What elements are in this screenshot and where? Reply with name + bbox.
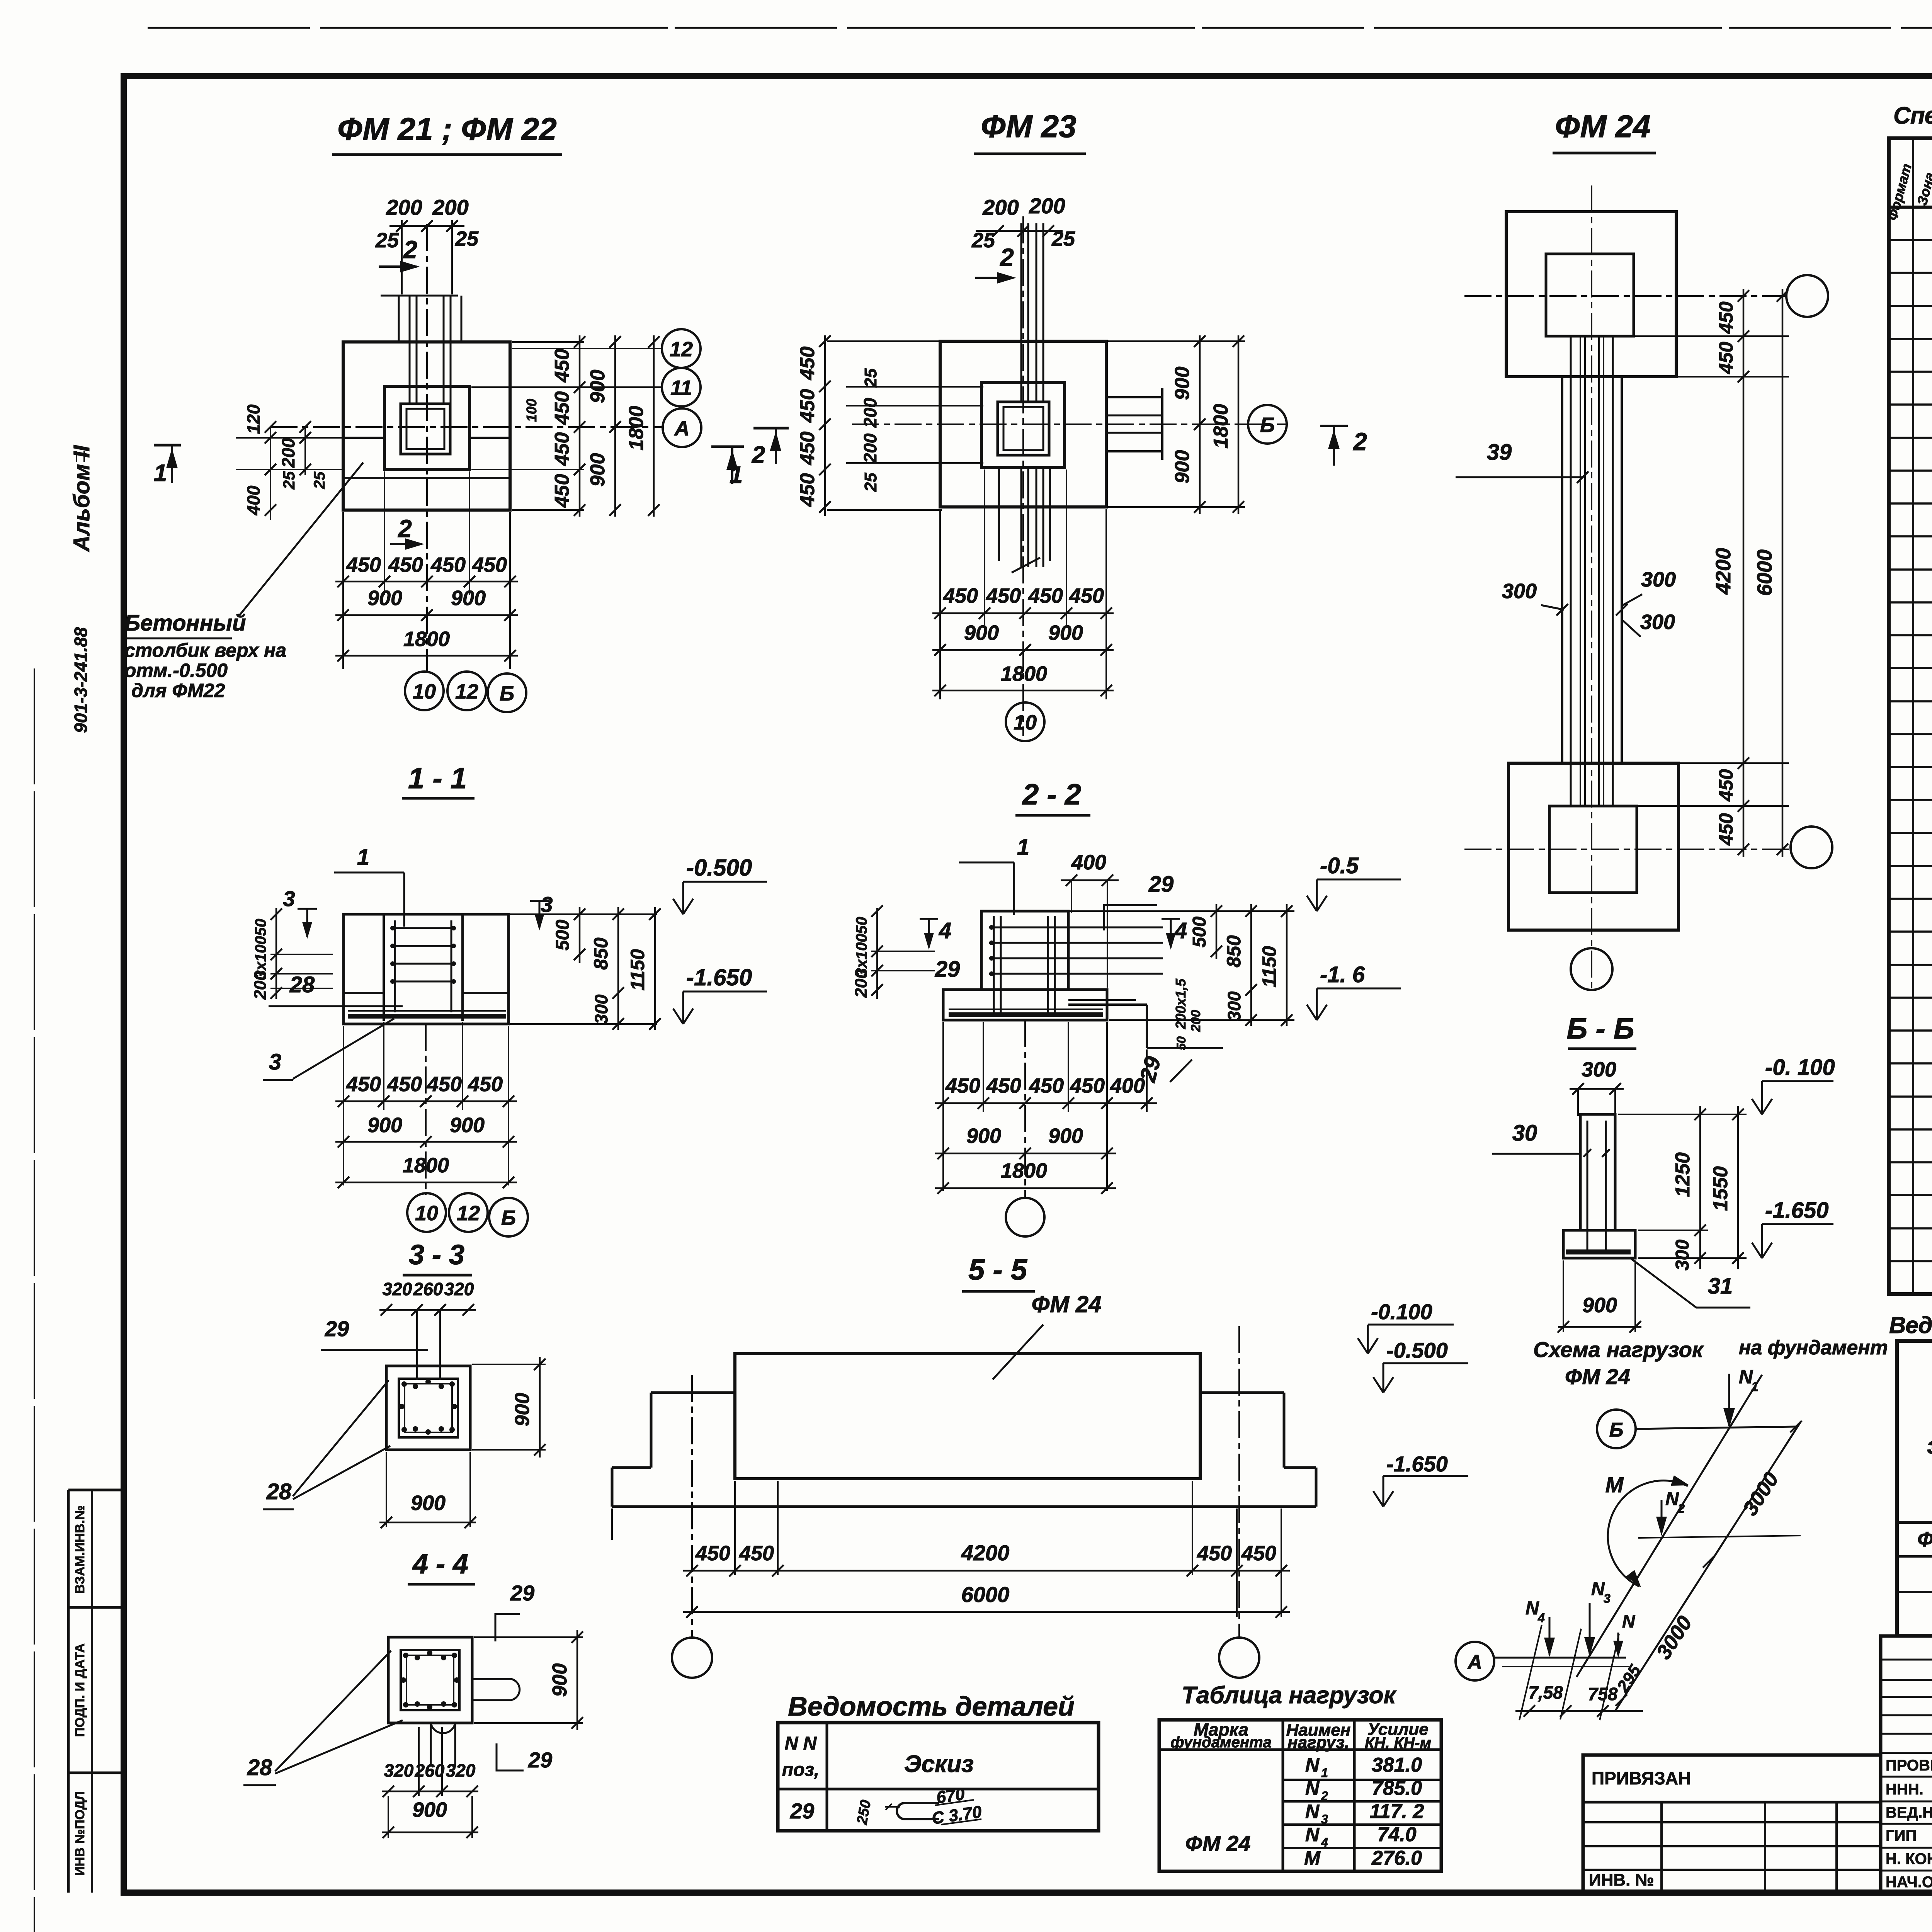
svg-text:450: 450 bbox=[430, 553, 466, 577]
5-5 base line bbox=[612, 1505, 1316, 1508]
1-1 bottom centerline bbox=[425, 1024, 427, 1195]
svg-text:450: 450 bbox=[1715, 342, 1737, 374]
svg-text:фундамента: фундамента bbox=[1170, 1734, 1272, 1751]
svg-text:276.0: 276.0 bbox=[1371, 1847, 1422, 1869]
svg-text:200: 200 bbox=[386, 195, 422, 219]
sheet outer left edge line bbox=[34, 668, 35, 1932]
svg-text:450: 450 bbox=[551, 432, 573, 466]
svg-text:N: N bbox=[1305, 1824, 1320, 1845]
FM23 bottom extension lines bbox=[939, 509, 941, 699]
5-5 right axis circle bbox=[1219, 1638, 1259, 1678]
svg-text:А: А bbox=[674, 417, 690, 440]
FM23 section mark 2 right bbox=[1320, 425, 1348, 427]
svg-text:-0.500: -0.500 bbox=[686, 855, 752, 881]
FM23 right extension lines bbox=[1108, 340, 1245, 342]
svg-text:Таблица нагрузок: Таблица нагрузок bbox=[1182, 1682, 1397, 1709]
svg-text:200: 200 bbox=[432, 195, 468, 219]
B-B elevation -0.100 bbox=[1761, 1081, 1763, 1114]
svg-text:300: 300 bbox=[1641, 568, 1676, 591]
4-4 rebar outlets bottom bbox=[430, 1723, 432, 1767]
FM24 top axis circle bbox=[1786, 275, 1828, 317]
2-2 right dimension 1150 bbox=[1286, 904, 1288, 1026]
load scheme A axis lines bbox=[1494, 1657, 1626, 1659]
svg-text:ФМ 21 ; ФМ 22: ФМ 21 ; ФМ 22 bbox=[337, 112, 557, 147]
FM21 bottom extension lines bbox=[342, 512, 344, 669]
svg-text:300: 300 bbox=[1582, 1058, 1616, 1081]
2-2 elevation -0.500 bbox=[1316, 879, 1318, 911]
svg-text:117. 2: 117. 2 bbox=[1370, 1800, 1424, 1823]
svg-text:450: 450 bbox=[551, 474, 573, 508]
svg-text:900: 900 bbox=[1048, 621, 1083, 645]
svg-text:ФМ 21, ФМ 22: ФМ 21, ФМ 22 bbox=[1917, 1528, 1932, 1551]
svg-text:Б: Б bbox=[1609, 1419, 1624, 1441]
svg-text:30: 30 bbox=[1512, 1121, 1537, 1146]
svg-text:450: 450 bbox=[346, 553, 381, 577]
FM23 axis circle B bbox=[1248, 405, 1287, 444]
5-5 bottom dimension 6000 bbox=[683, 1611, 1290, 1613]
svg-text:Н. КОНТР: Н. КОНТР bbox=[1886, 1850, 1932, 1867]
FM21 vertical centerline bbox=[426, 224, 428, 673]
svg-text:25: 25 bbox=[861, 368, 880, 388]
svg-text:Альбом II: Альбом II bbox=[69, 445, 94, 553]
FM23 top dimension 200 200 bbox=[976, 230, 1063, 232]
steel table outer bbox=[1897, 1341, 1932, 1636]
svg-text:25: 25 bbox=[311, 471, 328, 489]
svg-text:ФМ 24: ФМ 24 bbox=[1032, 1291, 1102, 1317]
specification table header row line bbox=[1889, 206, 1932, 209]
load scheme force N3 bbox=[1589, 1603, 1591, 1654]
2-2 bottom centerline bbox=[1024, 1020, 1026, 1198]
svg-text:450: 450 bbox=[388, 553, 423, 577]
B-B column rebar bbox=[1587, 1121, 1588, 1250]
svg-text:25: 25 bbox=[375, 229, 399, 252]
svg-text:1800: 1800 bbox=[1001, 1159, 1047, 1182]
FM23 left extension lines bbox=[846, 386, 983, 388]
svg-text:на фундамент: на фундамент bbox=[1739, 1337, 1888, 1359]
svg-text:М: М bbox=[1605, 1473, 1624, 1497]
2-2 rebar cage bbox=[993, 916, 995, 1016]
load scheme axis circle B bbox=[1597, 1410, 1636, 1448]
FM21 horizontal centerline bbox=[270, 426, 663, 428]
svg-text:2: 2 bbox=[1321, 1789, 1328, 1803]
4-4 right dimension 900 bbox=[577, 1630, 578, 1730]
svg-text:450: 450 bbox=[1070, 1074, 1105, 1097]
svg-text:450: 450 bbox=[468, 1073, 503, 1096]
svg-text:500: 500 bbox=[1189, 917, 1210, 947]
FM21 left dimension cluster 400 120 200 200 25 bbox=[236, 437, 343, 439]
svg-text:400: 400 bbox=[243, 485, 264, 515]
load scheme force N bbox=[1617, 1633, 1619, 1655]
svg-text:11: 11 bbox=[670, 376, 692, 400]
1-1 axis circle 12 bbox=[449, 1193, 488, 1232]
FM24 bottom footing square bbox=[1509, 763, 1679, 930]
svg-text:ФМ 23: ФМ 23 bbox=[981, 109, 1076, 144]
svg-text:25: 25 bbox=[455, 227, 479, 250]
svg-text:Б - Б: Б - Б bbox=[1566, 1012, 1634, 1045]
FM21 outer footing square bbox=[343, 342, 510, 510]
2-2 bottom dimension chain 450x4 400 bbox=[935, 1102, 1157, 1104]
FM24 bottom pedestal square bbox=[1549, 806, 1637, 893]
svg-text:2: 2 bbox=[1353, 428, 1367, 456]
3-3 right dimension 900 bbox=[539, 1357, 541, 1458]
svg-text:2: 2 bbox=[752, 442, 765, 468]
B-B column bbox=[1580, 1114, 1615, 1230]
svg-text:ВЕД.ННН: ВЕД.ННН bbox=[1886, 1804, 1932, 1821]
svg-text:450: 450 bbox=[346, 1073, 381, 1096]
4-4 rebar dots bbox=[403, 1653, 408, 1658]
svg-text:М: М bbox=[1304, 1847, 1321, 1869]
5-5 right steps bbox=[1200, 1391, 1284, 1394]
loads table grid bbox=[1159, 1720, 1441, 1871]
svg-text:320: 320 bbox=[444, 1279, 474, 1299]
svg-text:200: 200 bbox=[860, 433, 880, 463]
svg-text:900: 900 bbox=[1171, 367, 1194, 400]
FM23 bottom dimension chain 450x4 bbox=[932, 612, 1114, 614]
svg-text:450: 450 bbox=[1715, 301, 1737, 334]
svg-text:29: 29 bbox=[1148, 872, 1174, 897]
load scheme diagonal dimension 3000 3000 bbox=[1615, 1422, 1801, 1711]
svg-text:N N: N N bbox=[785, 1733, 817, 1754]
svg-text:А: А bbox=[1467, 1651, 1482, 1673]
svg-text:74.0: 74.0 bbox=[1377, 1823, 1416, 1846]
3-3 rebar dots bbox=[401, 1381, 407, 1387]
FM21 section mark 2 top bbox=[379, 265, 417, 268]
svg-text:1550: 1550 bbox=[1709, 1166, 1732, 1211]
FM23 bottom dimension 1800 bbox=[932, 690, 1114, 692]
svg-text:N: N bbox=[1305, 1777, 1320, 1799]
svg-text:1800: 1800 bbox=[625, 406, 648, 451]
svg-text:ФМ 24: ФМ 24 bbox=[1565, 1364, 1630, 1389]
svg-text:Ведомость деталей: Ведомость деталей bbox=[788, 1691, 1075, 1721]
FM23 bottom axis circle 10 bbox=[1006, 702, 1044, 741]
svg-text:25: 25 bbox=[1051, 227, 1075, 250]
svg-text:900: 900 bbox=[1048, 1124, 1083, 1148]
FM21 bottom dimension chain 450x4 bbox=[335, 581, 518, 583]
svg-text:ИНВ. №: ИНВ. № bbox=[1589, 1871, 1654, 1889]
svg-text:100: 100 bbox=[524, 399, 539, 422]
2-2 bent bar 29 right bbox=[1068, 1003, 1147, 1006]
svg-text:2: 2 bbox=[403, 236, 417, 264]
1-1 elevation -1.650 bbox=[682, 992, 684, 1024]
svg-text:200: 200 bbox=[251, 971, 270, 1000]
svg-text:850: 850 bbox=[590, 937, 612, 970]
2-2 pedestal outline bbox=[981, 911, 1068, 990]
2-2 bottom extension lines bbox=[942, 1022, 944, 1191]
svg-text:25: 25 bbox=[971, 229, 995, 252]
FM24 right dimension 6000 bbox=[1782, 289, 1784, 857]
title block privyazan box bbox=[1583, 1755, 1881, 1892]
svg-text:50: 50 bbox=[853, 917, 870, 934]
1-1 rebar cage bbox=[394, 920, 396, 1012]
svg-text:10: 10 bbox=[415, 1202, 438, 1225]
load scheme force N4 bbox=[1549, 1617, 1551, 1655]
svg-text:1: 1 bbox=[154, 460, 167, 486]
svg-text:900: 900 bbox=[367, 1114, 402, 1137]
svg-text:Спецификация монолитных фундам: Спецификация монолитных фундаментов ФМ21… bbox=[1893, 102, 1932, 129]
svg-text:900: 900 bbox=[450, 1114, 485, 1137]
2-2 footing outline bbox=[943, 990, 1107, 1020]
1-1 axis circle B bbox=[489, 1198, 528, 1236]
FM21 bottom axis circle 10 bbox=[405, 672, 444, 710]
2-2 bottom mesh bbox=[949, 1009, 1103, 1010]
B-B right dimension 1550 bbox=[1737, 1106, 1739, 1269]
1-1 left dimension cluster bbox=[276, 908, 277, 999]
load scheme axis circle A bbox=[1456, 1642, 1494, 1680]
svg-text:450: 450 bbox=[427, 1073, 462, 1096]
5-5 beam outline bbox=[735, 1354, 1200, 1479]
svg-text:Ведомость расхода стали на оди: Ведомость расхода стали на один элемент,… bbox=[1889, 1312, 1932, 1338]
svg-text:300: 300 bbox=[1224, 991, 1244, 1021]
FM21 section mark 1 left bbox=[154, 444, 181, 447]
title block central signature column bbox=[1881, 1636, 1932, 1892]
svg-text:Схема нагрузок: Схема нагрузок bbox=[1533, 1337, 1704, 1362]
svg-text:900: 900 bbox=[964, 621, 999, 645]
5-5 left axis circle bbox=[672, 1638, 712, 1678]
1-1 elevation -0.500 bbox=[682, 882, 684, 914]
svg-text:450: 450 bbox=[986, 1074, 1021, 1097]
svg-text:-1.650: -1.650 bbox=[1765, 1198, 1828, 1223]
svg-text:1: 1 bbox=[1321, 1766, 1328, 1780]
2-2 elevation -1.650 bbox=[1316, 988, 1318, 1020]
FM24 bottom axis circle bbox=[1791, 827, 1832, 868]
svg-text:400: 400 bbox=[1110, 1074, 1145, 1097]
svg-text:2: 2 bbox=[398, 515, 412, 543]
svg-text:450: 450 bbox=[943, 584, 978, 607]
svg-text:4: 4 bbox=[939, 918, 951, 943]
svg-text:300: 300 bbox=[1502, 580, 1537, 603]
svg-text:5 - 5: 5 - 5 bbox=[968, 1253, 1028, 1286]
svg-text:29: 29 bbox=[790, 1799, 814, 1823]
svg-text:1150: 1150 bbox=[627, 949, 648, 991]
4-4 square section bbox=[388, 1637, 472, 1723]
B-B right dimension 1250 bbox=[1699, 1106, 1701, 1269]
svg-text:200: 200 bbox=[852, 969, 871, 998]
svg-text:50: 50 bbox=[1174, 1036, 1188, 1050]
B-B footing bbox=[1563, 1230, 1635, 1258]
svg-text:4200: 4200 bbox=[1712, 548, 1735, 595]
FM21 footing step lines bbox=[343, 437, 384, 439]
svg-text:4: 4 bbox=[1174, 918, 1187, 943]
FM24 column rebar lines bbox=[1580, 336, 1581, 806]
svg-text:200х1,5: 200х1,5 bbox=[1173, 978, 1189, 1029]
svg-text:450: 450 bbox=[695, 1542, 730, 1565]
svg-text:785.0: 785.0 bbox=[1372, 1777, 1422, 1799]
svg-text:12: 12 bbox=[457, 1202, 480, 1225]
2-2 left dimension cluster bbox=[876, 908, 878, 999]
svg-text:200: 200 bbox=[278, 438, 298, 468]
FM21 right dimension chain 900 900 bbox=[614, 335, 616, 517]
svg-text:850: 850 bbox=[1223, 935, 1245, 968]
sidebar stamp boxes bbox=[67, 1490, 70, 1893]
B-B bottom mesh bar bbox=[1566, 1250, 1631, 1255]
FM21 bottom dimension chain 900 900 bbox=[335, 614, 518, 616]
svg-text:450: 450 bbox=[1028, 584, 1063, 607]
FM21 top dimension 200 200 bbox=[389, 225, 464, 227]
FM23 column rebar outlets top bbox=[1020, 223, 1022, 403]
1-1 right dimension 850 300 bbox=[617, 907, 619, 1030]
FM23 horizontal centerline bbox=[852, 423, 1287, 425]
svg-text:450: 450 bbox=[1715, 813, 1737, 846]
3-3 square section bbox=[386, 1366, 470, 1450]
FM23 console below bbox=[998, 468, 1000, 561]
FM21 column rebar outlets bbox=[381, 295, 458, 297]
svg-text:3: 3 bbox=[1604, 1592, 1611, 1605]
1-1 body outline bbox=[344, 914, 509, 1024]
svg-text:10: 10 bbox=[1014, 711, 1037, 734]
svg-text:-0.500: -0.500 bbox=[1386, 1338, 1448, 1362]
1-1 bottom mesh bbox=[348, 1010, 506, 1012]
svg-text:29: 29 bbox=[528, 1748, 552, 1772]
5-5 bottom extension lines bbox=[734, 1481, 736, 1575]
svg-text:900: 900 bbox=[451, 587, 486, 610]
B-B extension lines bbox=[1618, 1114, 1747, 1115]
svg-text:4 - 4: 4 - 4 bbox=[412, 1549, 468, 1580]
svg-text:900: 900 bbox=[549, 1663, 571, 1697]
svg-text:4200: 4200 bbox=[961, 1541, 1010, 1565]
load scheme bottom dimension 758 758 bbox=[1515, 1710, 1643, 1712]
FM23 outer footing square bbox=[940, 341, 1106, 507]
5-5 elevation -0.500 bbox=[1383, 1363, 1384, 1393]
svg-text:28: 28 bbox=[266, 1479, 292, 1504]
svg-text:450: 450 bbox=[1029, 1074, 1064, 1097]
svg-text:7,58: 7,58 bbox=[1528, 1682, 1563, 1702]
svg-text:450: 450 bbox=[796, 473, 819, 507]
FM23 right dimension chain 900 900 bbox=[1199, 335, 1201, 514]
svg-text:758: 758 bbox=[1588, 1684, 1618, 1704]
FM21 bottom axis circle 12 bbox=[447, 672, 486, 710]
2-2 bottom dimension chain 900 900 bbox=[935, 1153, 1116, 1155]
svg-text:ФМ 24: ФМ 24 bbox=[1555, 109, 1650, 144]
FM23 section mark 2 top bbox=[975, 277, 1013, 279]
svg-text:50: 50 bbox=[252, 919, 269, 936]
FM24 column strip bbox=[1561, 377, 1563, 763]
B-B elevation -1.650 bbox=[1761, 1224, 1763, 1258]
svg-text:25: 25 bbox=[861, 473, 880, 492]
load scheme force N1 bbox=[1728, 1374, 1730, 1426]
svg-text:ПРИВЯЗАН: ПРИВЯЗАН bbox=[1592, 1768, 1691, 1788]
svg-text:ГИП: ГИП bbox=[1886, 1827, 1917, 1844]
svg-text:39: 39 bbox=[1487, 440, 1512, 465]
2-2 bottom axis circle bbox=[1006, 1198, 1044, 1236]
1-1 right dimension 1150 bbox=[654, 907, 656, 1030]
svg-text:450: 450 bbox=[1715, 769, 1737, 802]
FM21 note concrete pillar leader bbox=[240, 463, 363, 615]
svg-text:120: 120 bbox=[243, 404, 264, 434]
FM23 bottom dimension chain 900 900 bbox=[932, 649, 1114, 651]
FM24 top pedestal square bbox=[1546, 254, 1634, 336]
sheet outer top edge line bbox=[148, 27, 1932, 29]
svg-text:ФМ 24: ФМ 24 bbox=[1185, 1831, 1251, 1855]
svg-text:200: 200 bbox=[982, 195, 1019, 219]
FM21 pedestal square bbox=[384, 386, 469, 469]
svg-text:4: 4 bbox=[1537, 1611, 1545, 1625]
1-1 right dimension 500 bbox=[579, 907, 581, 963]
svg-text:900: 900 bbox=[1171, 450, 1194, 484]
svg-text:N: N bbox=[1665, 1489, 1679, 1509]
FM23 left dimension chain 450x4 bbox=[824, 335, 826, 516]
1-1 bottom dimension chain 900 900 bbox=[335, 1141, 517, 1143]
svg-text:900: 900 bbox=[1582, 1294, 1617, 1317]
svg-text:столбик верх на: столбик верх на bbox=[124, 639, 286, 661]
svg-text:1800: 1800 bbox=[403, 628, 450, 651]
section mark 1 middle bbox=[711, 446, 744, 448]
svg-text:900: 900 bbox=[367, 587, 402, 610]
svg-text:450: 450 bbox=[739, 1542, 774, 1565]
svg-text:НАЧ.ОТД: НАЧ.ОТД bbox=[1886, 1874, 1932, 1891]
1-1 right extension lines bbox=[510, 913, 657, 915]
svg-text:450: 450 bbox=[1241, 1542, 1276, 1565]
svg-text:-0.100: -0.100 bbox=[1371, 1299, 1432, 1324]
svg-text:450: 450 bbox=[796, 432, 819, 466]
FM21 bottom dimension 1800 bbox=[335, 655, 518, 657]
FM21 axis circle 12 bbox=[662, 329, 701, 368]
svg-text:3: 3 bbox=[283, 886, 295, 911]
svg-text:2: 2 bbox=[1000, 243, 1014, 271]
svg-text:200: 200 bbox=[1029, 194, 1065, 218]
load scheme force N2 bbox=[1661, 1500, 1663, 1533]
svg-text:нагруз.: нагруз. bbox=[1287, 1733, 1349, 1752]
svg-text:элемента: элемента bbox=[1927, 1433, 1932, 1459]
specification table outer bbox=[1889, 138, 1932, 1294]
1-1 axis circle 10 bbox=[407, 1193, 446, 1232]
svg-text:300: 300 bbox=[1640, 611, 1675, 634]
svg-text:для ФМ22: для ФМ22 bbox=[131, 680, 225, 701]
svg-text:12: 12 bbox=[455, 680, 478, 703]
svg-text:900: 900 bbox=[587, 453, 609, 487]
svg-text:1150: 1150 bbox=[1259, 946, 1280, 988]
5-5 elevation -1.650 bbox=[1383, 1476, 1384, 1507]
svg-text:1250: 1250 bbox=[1672, 1152, 1694, 1197]
1-1 bottom dimension 1800 bbox=[335, 1182, 517, 1184]
svg-text:29: 29 bbox=[325, 1316, 349, 1341]
load scheme moment M arc bbox=[1608, 1481, 1688, 1587]
5-5 right axis centerline bbox=[1238, 1326, 1240, 1637]
2-2 right extension lines bbox=[1070, 910, 1294, 912]
svg-text:6000: 6000 bbox=[961, 1582, 1010, 1607]
2-2 right dimension 850 300 bbox=[1250, 904, 1252, 1026]
FM24 lower axis circle bbox=[1571, 948, 1612, 990]
svg-text:Копировал: Алешикова: Копировал: Алешикова bbox=[1122, 1929, 1420, 1932]
svg-text:29: 29 bbox=[935, 957, 960, 982]
svg-text:28: 28 bbox=[247, 1755, 272, 1780]
FM24 vertical centerline bbox=[1591, 185, 1592, 990]
svg-text:28: 28 bbox=[289, 972, 315, 997]
svg-text:1800: 1800 bbox=[403, 1154, 449, 1177]
FM23 beam console right bbox=[1106, 396, 1162, 398]
FM24 bottom horizontal centerline bbox=[1464, 849, 1790, 850]
svg-text:450: 450 bbox=[1069, 584, 1104, 607]
svg-text:320: 320 bbox=[384, 1760, 414, 1781]
svg-text:450: 450 bbox=[1197, 1542, 1232, 1565]
FM21 axis circle 11 bbox=[662, 368, 701, 406]
svg-text:КН, КН-м: КН, КН-м bbox=[1365, 1735, 1431, 1752]
5-5 elevation -0.100 bbox=[1367, 1325, 1369, 1354]
1-1 bottom extension lines bbox=[343, 1026, 344, 1185]
2-2 bottom dimension 1800 bbox=[935, 1187, 1116, 1189]
svg-text:300: 300 bbox=[1672, 1240, 1693, 1270]
svg-text:450: 450 bbox=[986, 584, 1021, 607]
svg-text:450: 450 bbox=[796, 389, 819, 423]
svg-text:1800: 1800 bbox=[1001, 662, 1047, 685]
svg-text:ННН.: ННН. bbox=[1886, 1781, 1923, 1798]
FM23 column socket squares bbox=[998, 402, 1049, 455]
svg-text:381.0: 381.0 bbox=[1372, 1754, 1422, 1776]
svg-text:Бетонный: Бетонный bbox=[124, 611, 246, 636]
svg-text:901-3-241.88: 901-3-241.88 bbox=[71, 627, 91, 733]
svg-text:450: 450 bbox=[472, 553, 507, 577]
svg-text:3: 3 bbox=[541, 892, 553, 917]
svg-text:1: 1 bbox=[357, 845, 369, 870]
